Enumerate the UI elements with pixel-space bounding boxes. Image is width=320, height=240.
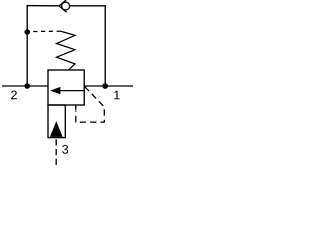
check valve CV1 ball	[62, 2, 70, 10]
junction dot: pilot tap on left rail	[24, 29, 30, 35]
wire: main line right to port 1	[84, 85, 133, 87]
junction dot: left rail on main line	[24, 83, 30, 89]
port label 1	[114, 91, 119, 100]
flow path arrow line inside valve	[60, 90, 85, 92]
flow path arrowhead pointing left	[50, 87, 60, 94]
pilot stub from valve bottom	[75, 105, 77, 110]
lower body (relief section)	[48, 105, 65, 138]
spring K1	[57, 31, 76, 70]
wire: left vertical rail and top rail to check valve	[27, 6, 59, 86]
pilot line (dashed) from left tap to spring	[33, 30, 60, 32]
pilot sense loop (dashed) to port 1 side	[76, 86, 105, 122]
relief poppet triangle	[50, 121, 63, 137]
wire: top rail right segment and right vertical rail	[70, 6, 106, 86]
port label 2	[11, 90, 17, 99]
check valve CV1 seat	[59, 0, 67, 12]
port label 3	[62, 145, 68, 154]
wire: main line left from port 2	[2, 85, 48, 87]
valve body U1	[48, 70, 84, 105]
junction dot: right rail on main line	[102, 83, 108, 89]
drain line (dashed) to port 3	[55, 139, 57, 166]
